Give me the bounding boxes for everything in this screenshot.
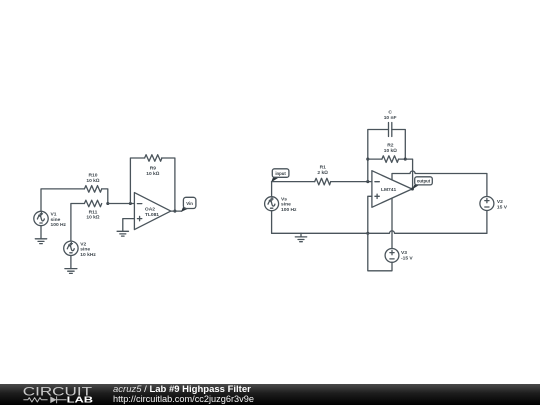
wire Vs bottom to rail	[271, 211, 273, 234]
op-amp U1 LM741	[372, 171, 412, 208]
wire input to R1	[272, 181, 315, 183]
node input flag	[271, 169, 289, 183]
svg-text:Vs: Vs	[281, 196, 287, 202]
wire V1 bottom to ground	[40, 226, 42, 239]
resistor R9	[145, 155, 162, 162]
voltage source V2 (sine)	[64, 241, 78, 255]
resistor R11	[84, 200, 101, 207]
junction (feedback right)	[404, 158, 407, 161]
wire V1 top to R10	[41, 189, 84, 211]
wire R2 right stub	[399, 158, 405, 160]
svg-text:V3: V3	[401, 250, 407, 256]
svg-text:input: input	[275, 171, 286, 176]
ground (V1)	[35, 239, 46, 244]
wire op-amp + input to ground	[123, 219, 135, 232]
wire R1 to op-amp inverting input	[331, 181, 372, 183]
junction (op-amp output)	[411, 187, 414, 190]
label R11 value	[86, 209, 100, 220]
svg-text:sine: sine	[80, 247, 90, 253]
label R2 value	[384, 142, 398, 154]
wire R11 left to V2	[71, 204, 85, 242]
svg-text:10 nF: 10 nF	[384, 115, 397, 121]
junction (feedback left)	[366, 158, 369, 161]
svg-text:C: C	[388, 109, 392, 115]
wire V- supply to V3	[391, 198, 393, 248]
svg-text:R11: R11	[89, 209, 98, 215]
svg-text:V2: V2	[80, 241, 86, 247]
wire V3 bottom return to rail	[368, 233, 392, 270]
node Vin flag	[181, 197, 196, 212]
label Vs value	[281, 196, 297, 213]
wire feedback left leg	[130, 158, 144, 204]
wire V2 bottom to ground	[70, 256, 72, 269]
svg-text:V1: V1	[51, 212, 57, 218]
resistor R1	[315, 178, 331, 185]
svg-text:100 Hz: 100 Hz	[281, 207, 297, 213]
label V3 value	[401, 250, 413, 262]
svg-text:10 kΩ: 10 kΩ	[384, 148, 398, 154]
footer bar	[0, 384, 540, 405]
wire output	[171, 210, 182, 212]
wire feedback to output	[405, 159, 412, 189]
wire feedback left leg	[368, 130, 389, 182]
wire input corner to Vs	[271, 182, 273, 197]
svg-text:-15 V: -15 V	[401, 255, 413, 261]
label R1 value	[317, 164, 328, 176]
voltage source V2 (15 V battery)	[480, 197, 494, 211]
title text	[113, 385, 254, 405]
wire R2 left stub	[368, 158, 382, 160]
node output flag	[412, 177, 432, 190]
ground (op-amp +)	[117, 231, 128, 236]
svg-text:sine: sine	[281, 202, 291, 208]
svg-text:10 kHz: 10 kHz	[80, 252, 96, 258]
resistor R10	[84, 186, 101, 193]
voltage source V3 (-15 V battery)	[385, 249, 399, 263]
label V2 value	[80, 241, 96, 258]
svg-text:15 V: 15 V	[497, 204, 508, 210]
label R9 value	[146, 165, 160, 177]
svg-text:10 kΩ: 10 kΩ	[86, 215, 100, 221]
capacitor C	[389, 123, 392, 137]
junction (inverting input node)	[129, 202, 132, 205]
label V2 value	[497, 199, 508, 210]
svg-text:OA2: OA2	[145, 206, 155, 212]
svg-text:LAB: LAB	[67, 396, 94, 405]
ground (V2)	[65, 269, 77, 274]
svg-text:2 kΩ: 2 kΩ	[317, 170, 328, 176]
svg-text:Vin: Vin	[186, 201, 193, 206]
svg-text:LM741: LM741	[381, 187, 397, 193]
svg-text:R2: R2	[387, 142, 394, 148]
svg-text:sine: sine	[51, 217, 61, 223]
voltage source V1 (sine)	[34, 211, 48, 225]
label V1 value	[51, 212, 67, 229]
svg-text:R9: R9	[150, 165, 157, 171]
wire feedback right leg	[162, 158, 175, 211]
junction (inverting node)	[366, 180, 369, 183]
wire ground rail (hop over V3 branch)	[272, 231, 487, 234]
resistor R2	[382, 156, 399, 163]
label C value	[384, 109, 397, 121]
wire op-amp + input down to rail	[368, 196, 372, 233]
svg-text:TL081: TL081	[145, 212, 159, 218]
junction (output node)	[173, 210, 176, 213]
svg-text:R10: R10	[89, 172, 98, 178]
junction (R10/R11)	[106, 202, 109, 205]
svg-text:V2: V2	[497, 199, 503, 205]
ground (rail)	[295, 233, 306, 241]
label R10 value	[86, 172, 100, 184]
svg-text:10 kΩ: 10 kΩ	[86, 178, 100, 184]
CircuitLab logo	[0, 384, 110, 405]
op-amp OA2 TL081	[134, 193, 170, 230]
wire V2 bottom to rail	[486, 211, 488, 234]
wire capacitor right leg	[392, 130, 406, 160]
wire R10 right to R11 node	[102, 189, 108, 204]
svg-text:R1: R1	[320, 164, 327, 170]
svg-text:10 kΩ: 10 kΩ	[146, 171, 160, 177]
svg-text:output: output	[417, 179, 431, 184]
junction (+ input / rail / V3 return)	[366, 232, 369, 235]
wire summing node	[108, 203, 135, 205]
wire V+ supply to V2 (hop over feedback leg)	[392, 171, 487, 197]
voltage source Vs (sine)	[265, 197, 279, 211]
svg-text:100 Hz: 100 Hz	[51, 222, 67, 228]
